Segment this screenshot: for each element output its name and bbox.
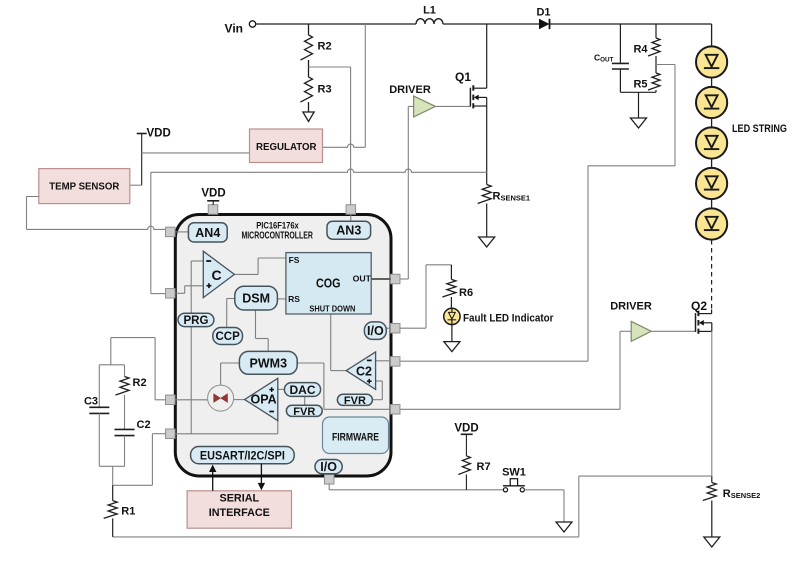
svg-text:DRIVER: DRIVER <box>610 301 652 313</box>
svg-text:EUSART/I2C/SPI: EUSART/I2C/SPI <box>200 448 285 462</box>
svg-text:R7: R7 <box>477 461 491 473</box>
svg-text:C3: C3 <box>84 396 98 408</box>
svg-text:R5: R5 <box>633 79 647 91</box>
svg-text:VDD: VDD <box>201 188 225 200</box>
svg-text:RS: RS <box>288 294 300 304</box>
svg-text:C: C <box>211 267 221 283</box>
svg-text:Fault LED Indicator: Fault LED Indicator <box>463 313 554 325</box>
svg-text:MICROCONTROLLER: MICROCONTROLLER <box>241 229 313 241</box>
svg-text:DAC: DAC <box>290 383 316 397</box>
svg-text:C2: C2 <box>137 419 151 431</box>
svg-text:COG: COG <box>316 275 341 290</box>
svg-text:FVR: FVR <box>293 406 315 418</box>
svg-text:R1: R1 <box>121 506 135 518</box>
svg-text:DSM: DSM <box>242 292 270 306</box>
svg-text:REGULATOR: REGULATOR <box>256 141 317 153</box>
svg-text:Q1: Q1 <box>455 70 471 84</box>
svg-text:I/O: I/O <box>320 460 337 474</box>
svg-text:TEMP SENSOR: TEMP SENSOR <box>49 180 119 192</box>
svg-text:OPA: OPA <box>251 393 277 407</box>
svg-text:R2: R2 <box>318 41 332 53</box>
svg-text:R3: R3 <box>318 84 332 96</box>
svg-text:Q2: Q2 <box>691 299 707 313</box>
svg-text:PWM3: PWM3 <box>250 356 288 370</box>
svg-text:R6: R6 <box>459 287 473 299</box>
svg-text:VDD: VDD <box>147 128 171 140</box>
svg-text:AN4: AN4 <box>195 226 220 240</box>
svg-text:DRIVER: DRIVER <box>389 84 431 96</box>
svg-text:SHUT DOWN: SHUT DOWN <box>309 303 355 313</box>
svg-text:SW1: SW1 <box>502 467 526 479</box>
svg-text:R4: R4 <box>633 44 648 56</box>
svg-text:FS: FS <box>289 255 300 265</box>
svg-text:CCP: CCP <box>216 331 241 343</box>
svg-text:VDD: VDD <box>454 422 478 434</box>
svg-text:PRG: PRG <box>183 315 208 327</box>
svg-text:SERIAL: SERIAL <box>220 493 260 505</box>
svg-text:Vin: Vin <box>225 22 243 36</box>
svg-text:L1: L1 <box>423 5 436 17</box>
svg-text:D1: D1 <box>536 6 550 18</box>
svg-text:I/O: I/O <box>367 324 384 338</box>
svg-text:FIRMWARE: FIRMWARE <box>332 431 379 443</box>
svg-text:R2: R2 <box>133 377 147 389</box>
svg-text:C2: C2 <box>356 364 372 378</box>
svg-text:INTERFACE: INTERFACE <box>209 507 270 519</box>
svg-text:OUT: OUT <box>353 274 372 284</box>
svg-text:LED STRING: LED STRING <box>732 123 787 135</box>
svg-text:FVR: FVR <box>344 395 366 407</box>
svg-text:AN3: AN3 <box>336 224 361 238</box>
